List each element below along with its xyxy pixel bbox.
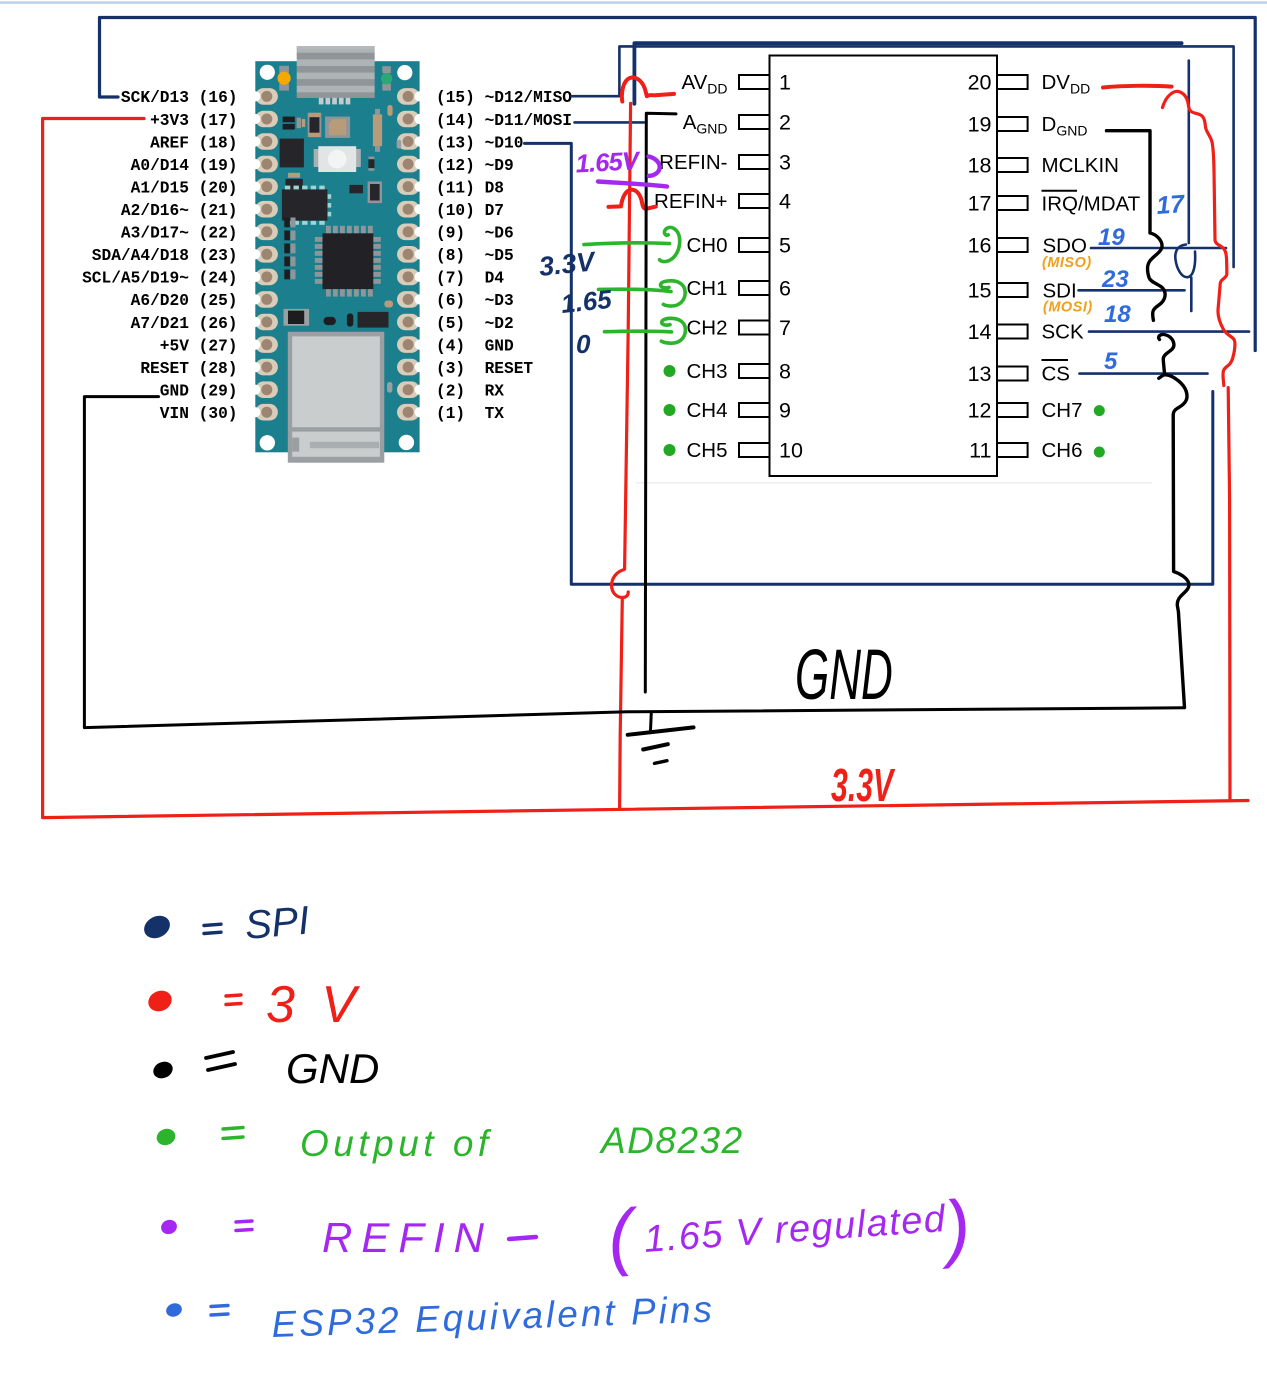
wire red REFIN+ hop arc: [609, 190, 656, 209]
svg-text:17: 17: [1155, 190, 1186, 220]
Arduino Nano 33 BLE board: [250, 46, 425, 462]
svg-text:8: 8: [779, 360, 791, 384]
svg-text:(11) D8: (11) D8: [436, 179, 504, 197]
svg-text:GND: GND: [795, 635, 893, 714]
svg-text:10: 10: [779, 439, 803, 463]
Arduino right pin labels: [436, 89, 572, 423]
svg-text:5: 5: [779, 234, 791, 258]
wire red AVDD hop arc: [622, 77, 674, 101]
small pills near right edge: [384, 105, 401, 393]
left pin boxes 1-10: [739, 75, 770, 457]
caps near flash: [349, 181, 382, 203]
svg-text:23: 23: [1101, 266, 1129, 293]
svg-text:19: 19: [968, 113, 992, 137]
small caps right of LED: [368, 157, 374, 171]
svg-text:3: 3: [779, 151, 791, 175]
svg-text:16: 16: [968, 234, 992, 258]
legend ESP32 dot: [164, 1301, 183, 1319]
svg-text:6: 6: [779, 277, 791, 301]
tall antenna component: [373, 109, 382, 152]
svg-text:2: 2: [779, 111, 791, 135]
svg-text:VIN (30): VIN (30): [160, 405, 238, 423]
svg-text:18: 18: [968, 154, 992, 178]
legend REFIN dot: [159, 1218, 179, 1237]
crystal: [325, 117, 350, 138]
svg-text:(MOSI): (MOSI): [1043, 300, 1093, 316]
wire CS line: [1080, 372, 1208, 375]
svg-text:(15) ~D12/MISO: (15) ~D12/MISO: [436, 89, 572, 107]
svg-text:1.65V: 1.65V: [575, 147, 642, 178]
wire ~D12/MISO to SDO pin16 : navy SPI: [572, 46, 1234, 267]
purple underline: [598, 182, 667, 187]
svg-text:REFIN+: REFIN+: [654, 190, 727, 213]
wire red hop over blue box bottom: [612, 570, 629, 598]
svg-text:REFIN: REFIN: [322, 1214, 493, 1261]
legend AD8232 dot: [154, 1126, 177, 1148]
wire GND(29) drop and bottom GND bus : black: [84, 397, 1184, 728]
wire AD8232 out to CH1 : green: [599, 289, 672, 291]
passives below MCU: [284, 309, 389, 328]
svg-text:9: 9: [779, 399, 791, 423]
legend 3V equals: [226, 995, 241, 1005]
top page border line: [0, 1, 1267, 3]
wire DGND hop over SCK line: [1159, 334, 1174, 373]
svg-text:19: 19: [1098, 224, 1125, 251]
ADC IC U1 body: [770, 56, 998, 477]
svg-text:3.3V: 3.3V: [537, 246, 597, 282]
RF shield module: [288, 332, 385, 463]
svg-text:14: 14: [968, 320, 992, 344]
wire red right drop tail to 3.3V rail: [1228, 388, 1230, 801]
small passives top-left: [283, 117, 306, 130]
wire SCK/D13 (16) to SCK pin14 : navy SPI: [100, 18, 1256, 351]
legend SPI dot: [140, 911, 174, 942]
8-pin flash IC: [282, 186, 331, 225]
svg-text:CH6: CH6: [1042, 439, 1083, 462]
svg-text:12: 12: [968, 399, 992, 423]
capacitor column: [284, 218, 295, 280]
wire MOSI drop tail: [1190, 278, 1193, 312]
svg-text:18: 18: [1104, 301, 1131, 328]
svg-text:+3V3 (17): +3V3 (17): [150, 112, 237, 130]
svg-text:SCK: SCK: [1042, 321, 1084, 344]
svg-text:20: 20: [968, 71, 992, 95]
svg-text:CH7: CH7: [1042, 399, 1083, 422]
wire DGND drop with hops over SDO/SDI : black: [1107, 131, 1166, 321]
svg-text:A1/D15 (20): A1/D15 (20): [131, 179, 238, 197]
faint page edge line under IC: [636, 482, 1152, 484]
svg-text:AD8232: AD8232: [599, 1120, 744, 1161]
svg-text:GND: GND: [286, 1045, 379, 1092]
svg-text:(MISO): (MISO): [1042, 255, 1092, 271]
svg-text:(6) ~D3: (6) ~D3: [436, 292, 514, 310]
green LED: [381, 66, 392, 90]
svg-text:1: 1: [779, 71, 791, 95]
wire ~D11/MOSI stub from label: [575, 121, 645, 124]
svg-text:A3/D17~ (22): A3/D17~ (22): [121, 225, 238, 243]
svg-text:(7) D4: (7) D4: [436, 270, 504, 288]
wire SDI line: [1079, 289, 1185, 292]
cap below regulator: [286, 173, 303, 189]
svg-text:A6/D20 (25): A6/D20 (25): [131, 292, 238, 310]
wire red DVDD lead: [1103, 86, 1172, 88]
right pin labels: [1042, 71, 1141, 462]
svg-text:SPI: SPI: [243, 899, 311, 948]
svg-text:IRQ/MDAT: IRQ/MDAT: [1042, 193, 1141, 216]
green hook at CH2: [661, 318, 685, 343]
svg-text:3 V: 3 V: [266, 976, 362, 1034]
svg-text:(2) RX: (2) RX: [436, 383, 504, 401]
wire MOSI right drop to SDI with hop over SDO line: [1175, 61, 1195, 278]
legend GND equals: [206, 1052, 235, 1070]
wire red center vertical (3.3V to AVDD/REFIN+): [620, 103, 631, 809]
svg-text:MCLKIN: MCLKIN: [1042, 154, 1119, 177]
svg-text:RESET (28): RESET (28): [140, 360, 237, 378]
svg-text:CH4: CH4: [686, 399, 727, 422]
IRQ overline: [1042, 190, 1078, 192]
svg-text:3.3V: 3.3V: [831, 761, 896, 812]
green hook at CH0: [660, 227, 680, 261]
svg-text:A7/D21 (26): A7/D21 (26): [131, 315, 238, 333]
svg-text:REFIN-: REFIN-: [659, 151, 727, 174]
svg-text:(4) GND: (4) GND: [436, 337, 514, 355]
svg-text:CH0: CH0: [686, 234, 727, 257]
svg-text:AREF (18): AREF (18): [150, 134, 237, 152]
svg-text:+5V (27): +5V (27): [160, 337, 238, 355]
wire SDO line: [1091, 247, 1226, 250]
svg-text:1.65: 1.65: [559, 284, 613, 319]
svg-text:4: 4: [779, 190, 791, 214]
svg-text:(5) ~D2: (5) ~D2: [436, 315, 514, 333]
svg-text:5: 5: [1104, 348, 1118, 375]
svg-text:7: 7: [779, 316, 791, 340]
castellated pads left: [250, 88, 278, 420]
castellated pads right: [397, 88, 425, 420]
purple bracket at REFIN-: [649, 157, 660, 176]
orange LED: [278, 66, 291, 91]
wire red right drop with hops: [1163, 91, 1235, 385]
wire ~D10 to CS pin13 : navy box: [525, 143, 1213, 584]
legend AD8232 equals: [223, 1128, 243, 1139]
legend GND dot: [151, 1059, 176, 1082]
legend 3V dot: [145, 987, 175, 1015]
svg-text:(12) ~D9: (12) ~D9: [436, 157, 514, 175]
svg-text:GND (29): GND (29): [160, 383, 238, 401]
PCB body: [255, 61, 419, 452]
legend SPI equals: [204, 924, 221, 933]
svg-text:(8) ~D5: (8) ~D5: [436, 247, 514, 265]
node 3.3V label: [831, 761, 896, 812]
node GND label: [795, 635, 893, 714]
svg-text:SCL/A5/D19~ (24): SCL/A5/D19~ (24): [82, 270, 237, 288]
pin numbers 1-10: [779, 71, 803, 463]
green output dots CH3 CH4 CH5: [664, 365, 676, 456]
svg-text:(14) ~D11/MOSI: (14) ~D11/MOSI: [436, 112, 572, 130]
svg-text:0: 0: [576, 329, 591, 359]
svg-text:13: 13: [968, 362, 992, 386]
legend ESP32 equals: [211, 1306, 228, 1316]
svg-text:Output of: Output of: [300, 1123, 493, 1164]
user LED (white): [314, 146, 361, 172]
svg-text:SDA/A4/D18 (23): SDA/A4/D18 (23): [92, 247, 238, 265]
green hook at CH1: [661, 281, 686, 306]
svg-text:CH1: CH1: [686, 277, 727, 300]
Arduino left pin labels: [82, 89, 237, 423]
svg-text:(9) ~D6: (9) ~D6: [436, 225, 514, 243]
main MCU: [315, 226, 381, 297]
wire AD8232 out to CH0 : green: [584, 243, 670, 245]
inductor component: [308, 113, 322, 137]
svg-text:17: 17: [968, 192, 992, 216]
svg-text:15: 15: [968, 279, 992, 303]
svg-text:(13) ~D10: (13) ~D10: [436, 134, 523, 152]
wire SCK line: [1089, 330, 1249, 333]
svg-text:CS: CS: [1042, 363, 1070, 386]
svg-text:SCK/D13 (16): SCK/D13 (16): [121, 89, 238, 107]
svg-text:A0/D14 (19): A0/D14 (19): [131, 157, 238, 175]
svg-text:CH2: CH2: [686, 317, 727, 340]
pin numbers 20-11: [968, 71, 992, 463]
svg-text:CH5: CH5: [686, 439, 727, 462]
wire DGND hook over CS line and drop: [1159, 375, 1189, 708]
wire AGND to ground : black: [645, 113, 676, 692]
svg-text:(1) TX: (1) TX: [436, 405, 504, 423]
mounting holes: [260, 65, 415, 451]
CS overline: [1042, 359, 1069, 361]
green output dots CH7 CH6: [1094, 405, 1105, 457]
voltage regulator IC: [280, 139, 304, 168]
svg-text:11: 11: [969, 439, 991, 463]
svg-text:(3) RESET: (3) RESET: [436, 360, 533, 378]
wire AD8232 out to CH2 : green: [605, 329, 672, 333]
svg-text:(10) D7: (10) D7: [436, 202, 504, 220]
wire MOSI riser and top run: [634, 43, 1181, 104]
USB connector: [297, 46, 375, 104]
right pin boxes 20-11: [997, 75, 1028, 457]
wire +3V3 left drop and 3.3V bottom rail : red: [43, 119, 1248, 818]
left pin labels: [654, 71, 727, 462]
legend REFIN equals: [236, 1221, 252, 1231]
svg-text:A2/D16~ (21): A2/D16~ (21): [121, 202, 238, 220]
ground symbol: [628, 712, 694, 763]
svg-text:CH3: CH3: [686, 360, 727, 383]
